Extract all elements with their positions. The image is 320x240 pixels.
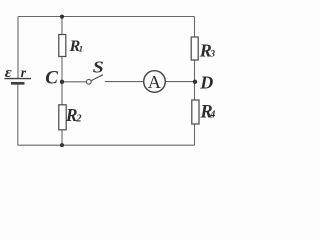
wire top — [18, 16, 195, 18]
wire node C to switch — [62, 81, 86, 83]
battery short thick plate — [11, 82, 25, 85]
wire bottom — [18, 144, 195, 146]
junction dot bottom (R2 branch, bottom wire) — [60, 143, 64, 147]
svg-text:2: 2 — [75, 113, 82, 124]
switch S contact circle — [86, 79, 91, 84]
battery long plate — [5, 78, 32, 80]
wire left upper (to battery) — [17, 17, 19, 79]
svg-text:D: D — [199, 72, 213, 92]
svg-text:1: 1 — [79, 43, 83, 53]
resistor R2 box — [59, 105, 66, 130]
wire R2 branch lower (R2 to bottom) — [61, 130, 63, 145]
svg-text:r: r — [21, 66, 27, 81]
resistor R1 box — [59, 35, 66, 57]
wire left lower (battery to bottom) — [17, 84, 19, 145]
ammeter A circle — [144, 71, 166, 93]
svg-text:A: A — [148, 72, 161, 92]
wire right upper (corner to R3) — [194, 17, 196, 38]
svg-text:ε: ε — [5, 65, 13, 81]
resistor R4 box — [192, 100, 199, 124]
svg-text:3: 3 — [209, 50, 215, 60]
resistor R3 box — [191, 37, 198, 60]
wire right mid (R3 to R4 through node D) — [194, 60, 196, 100]
svg-text:C: C — [45, 67, 58, 88]
svg-text:4: 4 — [209, 110, 215, 121]
wire right lower (R4 to bottom corner) — [194, 124, 196, 145]
wire R2 branch upper (node C to R2) — [61, 82, 63, 105]
wire switch to ammeter — [105, 81, 144, 83]
wire R1 branch lower (R1 to node C) — [61, 57, 63, 82]
junction dot top (R1 branch, top wire) — [60, 15, 64, 19]
wire ammeter to node D — [165, 81, 194, 83]
switch S lever — [91, 75, 103, 81]
svg-text:S: S — [93, 57, 104, 76]
node C junction dot — [60, 80, 64, 84]
node D junction dot — [193, 80, 197, 84]
wire R1 branch upper — [61, 17, 63, 35]
